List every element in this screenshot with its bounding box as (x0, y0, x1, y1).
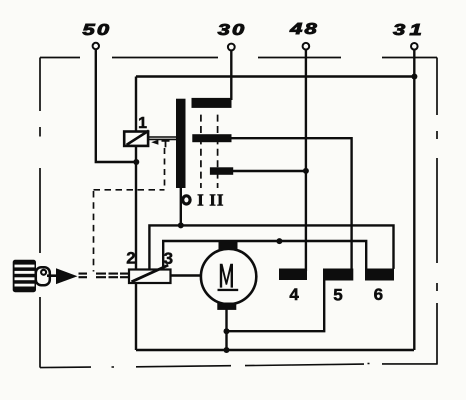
svg-text:6: 6 (374, 285, 383, 304)
svg-text:1: 1 (138, 115, 147, 132)
svg-text:2: 2 (126, 249, 135, 268)
svg-text:48: 48 (289, 21, 319, 38)
svg-text:31: 31 (393, 22, 426, 39)
svg-text:30: 30 (218, 22, 247, 39)
svg-text:3: 3 (164, 249, 173, 268)
svg-text:4: 4 (289, 285, 299, 304)
svg-text:I: I (197, 190, 204, 209)
svg-text:5: 5 (333, 285, 342, 304)
svg-text:50: 50 (83, 22, 112, 39)
svg-text:II: II (209, 190, 224, 209)
